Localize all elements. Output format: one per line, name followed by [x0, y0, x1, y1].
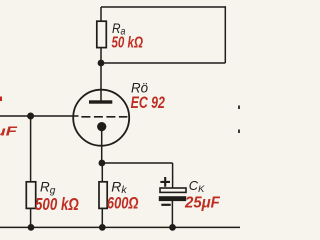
wire top supply rail: [101, 6, 225, 8]
svg-text:25μF: 25μF: [184, 194, 220, 211]
wire Ck top lead: [172, 163, 174, 188]
node Rg ground junction: [28, 224, 35, 231]
svg-text:50 kΩ: 50 kΩ: [112, 35, 144, 52]
wire grid input: [0, 115, 79, 117]
capacitor Ck top plate: [160, 188, 186, 192]
resistor Rk: [99, 182, 107, 209]
wire Ck bottom lead: [171, 201, 173, 227]
wire cathode lead: [101, 127, 103, 164]
capacitor Ck bottom plate: [159, 196, 186, 201]
svg-text:EC 92: EC 92: [131, 94, 165, 112]
node Rk ground junction: [99, 224, 106, 231]
wire cathode junction to Ck: [102, 162, 173, 164]
tube anode plate bar: [89, 100, 112, 103]
node cathode junction: [99, 160, 106, 167]
capacitor Ck minus sign: [161, 204, 170, 206]
svg-text:μF: μF: [0, 123, 19, 138]
wire anode horizontal: [101, 62, 225, 64]
svg-text:500 kΩ: 500 kΩ: [35, 194, 79, 214]
paper background: [0, 0, 240, 240]
node grid junction: [27, 113, 34, 120]
svg-text:600Ω: 600Ω: [107, 195, 139, 213]
wire anode lead into tube: [100, 63, 102, 101]
wire bottom ground rail: [0, 226, 240, 228]
speck right edge lower: [238, 130, 240, 134]
tube cathode dot: [97, 122, 106, 131]
wire left vertical to Rg: [30, 116, 32, 227]
tube grid dashed line: [81, 116, 127, 118]
red speck left edge: [0, 97, 2, 102]
node anode junction: [98, 60, 105, 67]
wire right vertical: [224, 6, 226, 63]
speck right edge upper: [238, 106, 240, 110]
resistor Ra: [97, 21, 107, 47]
resistor Rg: [26, 182, 35, 209]
tube envelope U1: [73, 90, 129, 146]
node Ck ground junction: [169, 224, 176, 231]
wire Ra vertical lead: [100, 7, 102, 63]
capacitor Ck plus sign: [160, 177, 170, 187]
wire Rk vertical: [101, 163, 103, 227]
